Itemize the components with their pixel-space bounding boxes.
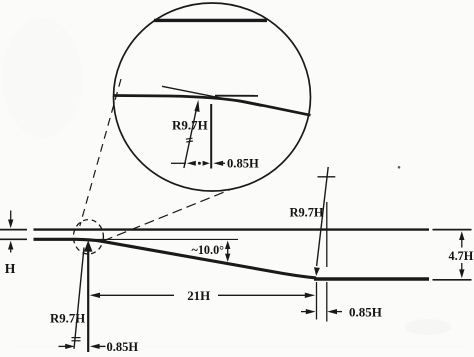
svg-text:R9.7H: R9.7H	[172, 118, 208, 133]
detail dimension line 0.85H	[171, 162, 186, 164]
detail view circle	[114, 3, 311, 191]
magnified upper wall (chord)	[154, 19, 267, 22]
21H dimension left arrow	[90, 293, 174, 298]
lower wall downstream	[314, 277, 429, 280]
svg-text:R9.7H: R9.7H	[50, 311, 85, 325]
leader arrow to tangency point (R9.7H detail)	[184, 100, 200, 168]
tilted radius line bottom-left	[74, 248, 84, 349]
svg-text:H: H	[5, 261, 16, 276]
H dimension lower arrow	[8, 241, 13, 253]
svg-text:0.85H: 0.85H	[107, 340, 139, 354]
scan smudge bottom mid	[10, 346, 470, 348]
small dot between arrows	[198, 162, 201, 165]
H dimension upper arrow	[8, 211, 13, 229]
svg-text:0.85H: 0.85H	[349, 304, 382, 319]
4.7H bottom extension line	[433, 279, 472, 281]
lower wall left extension	[0, 238, 27, 240]
bottom-left 0.85H dimension	[59, 344, 106, 349]
angle reference line	[91, 238, 238, 240]
svg-text:21H: 21H	[187, 289, 210, 303]
break tick on bottom-left radius line	[72, 338, 81, 341]
ramp-end extension line left	[316, 282, 318, 320]
4.7H top extension line	[433, 229, 472, 231]
svg-text:4.7H: 4.7H	[449, 249, 474, 263]
upper wall line	[34, 228, 430, 230]
4.7H upper arrow	[459, 231, 464, 247]
detail dim arrow pointing right	[203, 161, 210, 166]
horizontal wall extension line in detail	[215, 95, 258, 97]
angle dimension double arrow	[225, 241, 230, 262]
break tick on detail leader	[186, 138, 193, 142]
detail dim arrow pointing left	[187, 161, 196, 166]
lower wall upstream + rounded kink + ramp	[34, 239, 317, 278]
right extension line above wall	[326, 202, 328, 267]
cross mark top of right radius leader	[318, 176, 336, 178]
ramp-end extension line right	[326, 282, 328, 322]
magnified lower wall curve	[114, 96, 311, 116]
right 0.85H dimension	[301, 309, 342, 314]
dashed connector right	[103, 189, 233, 242]
dashed detail circle at kink	[73, 220, 103, 254]
svg-text:0.85H: 0.85H	[227, 156, 259, 170]
scan smudge bottom right	[405, 319, 451, 335]
tangent line (10 deg) in detail	[162, 86, 262, 106]
vertical reference line in detail	[210, 104, 212, 169]
stray ink dot	[398, 166, 401, 169]
dashed connector left	[80, 79, 121, 226]
svg-text:~10.0°: ~10.0°	[192, 243, 225, 257]
detail dim arrow left of label	[213, 161, 225, 166]
kink point arrow (up)	[84, 240, 93, 352]
svg-text:R9.7H: R9.7H	[290, 205, 324, 219]
upper wall left extension	[0, 229, 27, 231]
scan smudge top left	[2, 18, 82, 138]
21H dimension right arrow	[218, 293, 315, 298]
4.7H lower arrow	[459, 263, 464, 278]
right radius leader line	[314, 167, 328, 276]
